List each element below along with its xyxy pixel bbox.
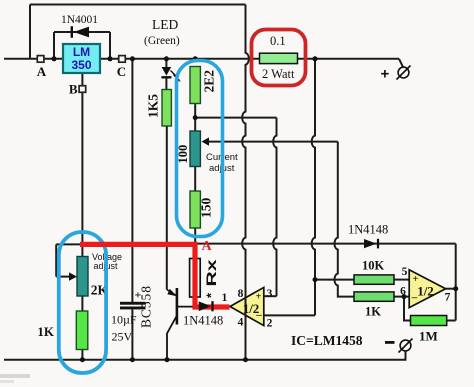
svg-text:1M: 1M: [419, 329, 438, 344]
svg-text:1: 1: [222, 292, 228, 304]
svg-text:1N4148: 1N4148: [183, 314, 223, 328]
wire 1M right link: [447, 320, 456, 322]
resistor R 1K left: [37, 311, 87, 350]
svg-text:1K: 1K: [365, 305, 381, 319]
regulator U3 LM350: [63, 44, 100, 73]
potentiometer 100 current adjust: [176, 131, 209, 167]
svg-text:10µF: 10µF: [111, 313, 137, 327]
resistor R 1K5: [146, 90, 172, 127]
wire 100 bottom to 150 top: [194, 167, 196, 192]
LED D2: [161, 67, 180, 82]
svg-text:+: +: [256, 292, 262, 303]
svg-text:C: C: [117, 64, 126, 79]
wire capacitor bottom leg: [131, 309, 133, 359]
wire LM350 adj to pot top (node B line): [81, 73, 83, 257]
svg-text:–: –: [411, 292, 418, 304]
diode 1N4148 body over red wire: [199, 302, 211, 312]
svg-text:3: 3: [267, 288, 273, 300]
svg-text:5: 5: [402, 266, 408, 278]
junction dot 10K tap: [313, 277, 318, 282]
resistor R 1M: [411, 316, 447, 344]
resistor R 150: [190, 191, 214, 228]
svg-text:–: –: [255, 309, 262, 321]
svg-text:0.1: 0.1: [270, 34, 286, 48]
resistor Rx outline: [190, 259, 219, 299]
svg-text:(Green): (Green): [144, 35, 180, 47]
svg-text:B: B: [69, 82, 78, 97]
wire power column x245.5 with hops: [242, 5, 249, 360]
svg-text:25V: 25V: [112, 330, 133, 344]
svg-text:10K: 10K: [362, 259, 385, 273]
op-amp U1a: [230, 287, 264, 325]
wire node A to feedback diode run: [196, 243, 456, 245]
wire 1N4001 bypass right leg: [109, 32, 111, 59]
node B terminal: [69, 82, 86, 97]
junction dot pin6: [402, 294, 407, 299]
wire left drop from top rail: [29, 5, 31, 59]
resistor R 1K right: [354, 292, 394, 319]
resistor R 2E2: [190, 67, 217, 104]
label current adjust: [206, 152, 238, 174]
node A terminal: [37, 56, 47, 79]
wire 2E2 bottom to 100 top: [194, 104, 196, 132]
svg-text:150: 150: [199, 198, 214, 219]
blue highlight oval voltage adjust: [59, 232, 106, 373]
svg-text:1N4001: 1N4001: [61, 14, 98, 26]
junction dots bottom rail: [80, 357, 85, 362]
wire 2K pot to 1K: [81, 296, 83, 311]
label voltage adjust: [92, 252, 122, 271]
red test wire: [80, 244, 230, 307]
svg-text:LED: LED: [152, 17, 178, 32]
svg-text:1K5: 1K5: [146, 94, 161, 118]
svg-text:7: 7: [445, 292, 451, 304]
blue highlight oval current adjust: [177, 61, 223, 237]
op-amp U1a pin labels: [222, 288, 273, 330]
wire 1K to pin6: [394, 296, 409, 298]
wire 1N4001 bypass top: [54, 31, 110, 33]
wire LED cathode to 1K5: [165, 78, 167, 90]
terminal minus output: [385, 339, 413, 353]
svg-text:2E2: 2E2: [202, 70, 217, 93]
svg-text:2 Watt: 2 Watt: [262, 67, 295, 81]
wire wiper column x337.8 with hops: [335, 142, 355, 297]
wire 10K feed: [315, 279, 354, 281]
wire voltage wiper to red node: [56, 243, 83, 245]
wire op2 output stub: [446, 288, 456, 290]
svg-text:A: A: [202, 239, 213, 254]
svg-text:1N4148: 1N4148: [348, 223, 388, 237]
wire voltage wiper riser: [55, 244, 57, 276]
transistor Q1 BC558: [139, 286, 197, 360]
svg-text:1K: 1K: [37, 324, 55, 339]
svg-text:IC=LM1458: IC=LM1458: [291, 333, 363, 348]
diode 1N4148 feedback: [348, 223, 388, 249]
svg-text:LM: LM: [73, 45, 90, 59]
svg-text:6: 6: [400, 286, 406, 298]
svg-text:Rx: Rx: [204, 259, 219, 287]
wire node tap to op-amp pin3 column: [195, 117, 276, 119]
red box 0.1 resistor highlight: [252, 30, 306, 86]
op-amp U1b: [400, 266, 451, 308]
wire LED top leg: [165, 59, 167, 67]
diode 1N4148 at op1 input: [183, 301, 223, 327]
wire 10K to pin5: [394, 279, 409, 281]
diode 1N4001: [72, 26, 89, 38]
wire 150 bottom to node A: [194, 228, 196, 244]
svg-text:1/2: 1/2: [417, 284, 434, 299]
junction dots top rail: [52, 56, 57, 61]
svg-text:350: 350: [71, 58, 91, 72]
wire bottom ground rail: [4, 351, 406, 360]
wire 1K bottom leg: [81, 350, 83, 360]
wire op1 pin3 stub: [264, 295, 277, 297]
wire pin6 to 1M left: [404, 297, 411, 321]
svg-text:A: A: [37, 64, 47, 79]
svg-text:BC558: BC558: [139, 286, 154, 328]
svg-text:+: +: [381, 66, 390, 83]
wire 1K5 to transistor emitter: [166, 126, 168, 290]
wire op2 output column: [455, 244, 457, 321]
svg-text:4: 4: [238, 317, 244, 329]
capacitor C1 10uF: [111, 288, 146, 344]
svg-text:2: 2: [267, 318, 273, 330]
node C terminal: [117, 56, 126, 79]
wire plus terminal drop: [399, 59, 403, 67]
svg-text:8: 8: [238, 288, 244, 300]
wire voltage wiper horizontal: [56, 276, 69, 278]
junction dot op2 output: [453, 286, 458, 291]
wire main positive rail: [4, 58, 399, 60]
wire top rail: [30, 4, 246, 6]
wire op1 pin2 stub: [264, 314, 315, 316]
wire capacitor top leg: [131, 59, 133, 303]
wire pin3 column x276.5 with hops: [273, 118, 276, 297]
resistor R 10K: [354, 259, 394, 285]
wire 1N4001 bypass left leg: [53, 32, 55, 59]
potentiometer 2K voltage adjust: [69, 257, 109, 298]
wire output sense column x315 with hops: [312, 59, 315, 316]
wire current wiper run: [209, 141, 338, 143]
resistor R 0.1 2W: [260, 34, 298, 81]
junction 2E2 tap: [193, 115, 198, 120]
terminal plus output: [381, 66, 411, 83]
svg-text:+: +: [413, 274, 419, 285]
